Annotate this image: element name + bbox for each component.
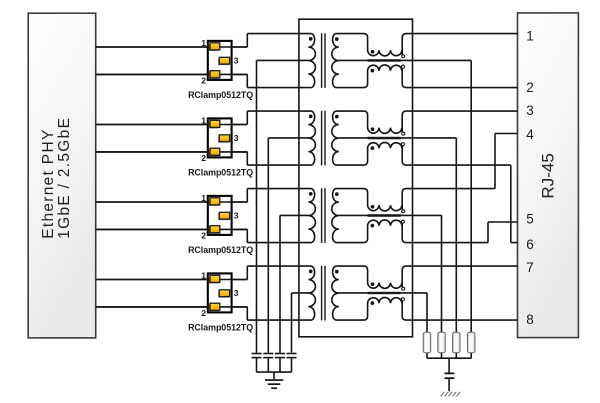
svg-text:3: 3 [234,210,239,220]
svg-text:1: 1 [526,28,534,43]
svg-text:3: 3 [526,103,534,118]
svg-text:RClamp0512TQ: RClamp0512TQ [188,323,253,333]
svg-text:RClamp0512TQ: RClamp0512TQ [188,245,253,255]
svg-text:2: 2 [201,308,206,318]
svg-text:2: 2 [201,153,206,163]
svg-text:1GbE / 2.5GbE: 1GbE / 2.5GbE [56,117,73,239]
svg-text:2: 2 [201,76,206,86]
svg-text:RClamp0512TQ: RClamp0512TQ [188,90,253,100]
svg-text:7: 7 [526,260,534,275]
svg-text:1: 1 [201,38,206,48]
svg-text:1: 1 [201,115,206,125]
svg-text:2: 2 [526,80,534,95]
svg-text:Ethernet PHY: Ethernet PHY [40,128,57,238]
svg-text:2: 2 [201,231,206,241]
svg-text:8: 8 [526,312,534,327]
svg-text:RClamp0512TQ: RClamp0512TQ [188,168,253,178]
svg-text:3: 3 [234,288,239,298]
svg-text:1: 1 [201,270,206,280]
svg-text:RJ-45: RJ-45 [539,153,558,198]
svg-text:5: 5 [526,212,534,227]
svg-text:6: 6 [526,237,534,252]
svg-text:3: 3 [234,55,239,65]
svg-text:3: 3 [234,133,239,143]
svg-text:1: 1 [201,193,206,203]
svg-text:4: 4 [526,127,534,142]
